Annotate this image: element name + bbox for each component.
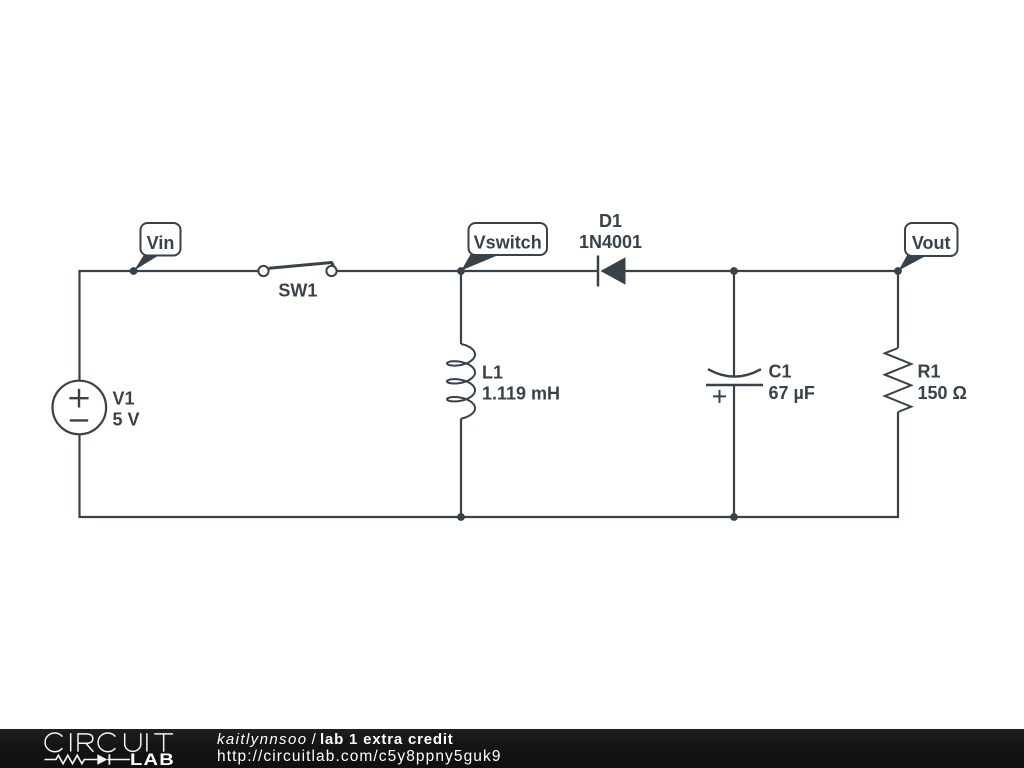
- wire C1 bottom to bottom rail: [733, 385, 735, 517]
- junction node dot Vin: [130, 267, 138, 275]
- logo diode triangle: [97, 754, 107, 765]
- logo letter C: [98, 733, 115, 752]
- label R1 value 150 Ohm: [918, 362, 967, 403]
- junction node dot C1 top: [730, 267, 738, 275]
- node flag Vout: [898, 223, 957, 271]
- resistor R1: [885, 348, 911, 412]
- footer text line 2: URL: [217, 748, 502, 766]
- diode D1: [598, 256, 626, 287]
- wire L1 bottom to bottom rail: [460, 419, 462, 517]
- footer text line 1: username and title: [217, 731, 454, 748]
- wire top-left: Vin rail from left corner to switch: [80, 271, 259, 381]
- inductor L1: [447, 344, 475, 419]
- logo diode cathode bar: [108, 754, 110, 765]
- footer bar: [0, 729, 1024, 768]
- logo letter C: [45, 733, 62, 752]
- logo letter T: [154, 734, 173, 752]
- switch SW1: [258, 263, 336, 277]
- wire switch to diode: [337, 270, 598, 272]
- logo letter R: [78, 733, 93, 752]
- junction node dot L1 bottom: [457, 513, 465, 521]
- junction node dot Vswitch: [457, 267, 465, 275]
- logo resistor squiggle: [44, 755, 97, 763]
- junction node dot Vout: [894, 267, 902, 275]
- logo letter I: [70, 733, 72, 751]
- logo letter U: [125, 733, 141, 751]
- logo wire to LAB: [107, 759, 129, 761]
- label L1 value 1.119 mH: [482, 362, 560, 403]
- label C1 value 67 uF: [769, 362, 815, 403]
- label V1 value 5 V: [113, 388, 140, 429]
- wire Vswitch node down to L1: [460, 271, 462, 344]
- CircuitLab logo wordmark LAB: [130, 751, 175, 768]
- junction node dot C1 bottom: [730, 513, 738, 521]
- wire V1 bottom to left bottom corner and bottom rail to R1 bottom: [80, 412, 899, 517]
- logo letter I: [146, 733, 148, 751]
- node flag Vswitch: [461, 223, 547, 271]
- wire diode to Vout corner and down to R1: [626, 271, 899, 348]
- wire C1 top: [733, 271, 735, 376]
- label D1 1N4001: [579, 211, 642, 252]
- capacitor C1 (polarized): [706, 369, 763, 403]
- node flag Vin: [134, 223, 181, 271]
- voltage source V1: [53, 381, 107, 435]
